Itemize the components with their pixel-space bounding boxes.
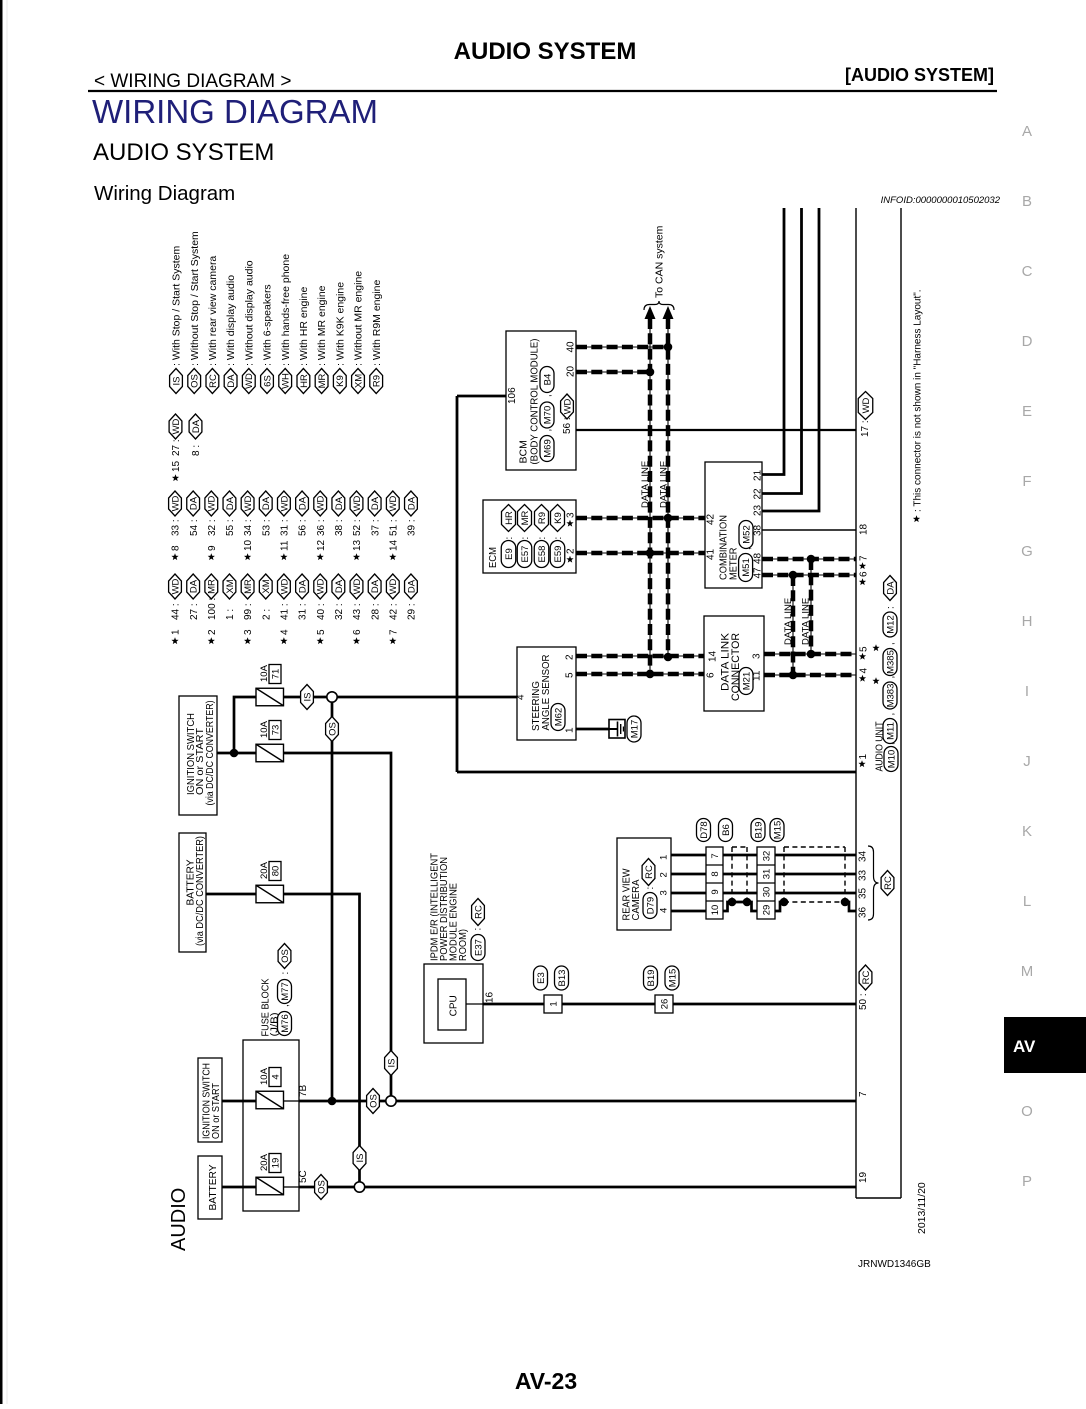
wire REAR VIEW CAMERA pin 2 row (671, 873, 706, 876)
svg-text:M11: M11 (885, 722, 896, 740)
svg-text:29 :: 29 : (407, 603, 418, 620)
option badge OS on 5C wire (315, 1175, 328, 1200)
svg-text:33: 33 (858, 869, 869, 881)
svg-text:CAMERA: CAMERA (631, 879, 642, 920)
svg-text:55 :: 55 : (225, 519, 236, 536)
AUDIO UNIT pin *5 (859, 646, 870, 660)
svg-text:8: 8 (171, 545, 182, 551)
svg-text:1: 1 (659, 855, 670, 860)
svg-text:WD: WD (243, 495, 254, 511)
legend badge HR (297, 286, 310, 393)
wire ECM pin *3 to COMBINATION METER pin 42 (576, 517, 705, 519)
ECM box (483, 500, 576, 573)
svg-text:DA: DA (261, 496, 272, 510)
note row B column 12 badge DA (368, 491, 381, 536)
svg-text:32 :: 32 : (334, 603, 345, 620)
svg-text:22: 22 (753, 488, 764, 500)
svg-text:3: 3 (659, 890, 670, 895)
legend badge RC (206, 256, 219, 394)
svg-text:OS: OS (190, 374, 201, 388)
note row B column 10 badge DA (332, 491, 345, 536)
junction dot ignition feed (230, 749, 239, 758)
svg-text:WD: WD (562, 398, 573, 414)
svg-text:1: 1 (858, 754, 869, 760)
note row C column 3 badge MR (205, 574, 218, 644)
COMBINATION METER badges M51 M52 (739, 521, 753, 582)
svg-text:4: 4 (859, 668, 870, 674)
svg-text:E57: E57 (520, 546, 531, 563)
ECM pin *3 (566, 512, 577, 527)
AUDIO UNIT pin *6 (859, 571, 870, 585)
wire connector D78 pin 7 to B19 pin 32 (723, 854, 757, 857)
svg-text:27 :: 27 : (189, 603, 200, 620)
legend badge WH (279, 254, 292, 394)
svg-text:,: , (886, 642, 897, 645)
svg-text:M52: M52 (741, 525, 752, 543)
svg-text:DA: DA (226, 374, 237, 388)
svg-text:WIRING DIAGRAM: WIRING DIAGRAM (92, 93, 378, 130)
wire DATA LINK CONNECTOR pin 3 to AUDIO UNIT pin *5 (764, 653, 856, 655)
svg-text:DA: DA (406, 496, 417, 510)
badge RC for camera pins (881, 871, 894, 896)
wire shield net to AUDIO UNIT pin 36 (843, 902, 856, 911)
svg-text:WD: WD (352, 495, 363, 511)
note row C column 5 badge MR (241, 574, 254, 644)
svg-text:WD: WD (279, 578, 290, 594)
svg-text:DATA LINE: DATA LINE (801, 598, 812, 645)
svg-text:DATA LINE: DATA LINE (783, 598, 794, 645)
ECM connector E59 badge K9 (550, 505, 565, 568)
svg-text:IS: IS (302, 693, 313, 702)
svg-text:DATA LINE: DATA LINE (640, 461, 651, 508)
svg-text:M76: M76 (280, 1014, 291, 1032)
svg-text:DA: DA (334, 579, 345, 593)
STEERING ANGLE SENSOR box (517, 647, 576, 740)
svg-text:DA: DA (406, 579, 417, 593)
fuse 80 number box (269, 862, 281, 881)
svg-text:JRNWD1346GB: JRNWD1346GB (858, 1259, 931, 1270)
wire BCM pin 56 to AUDIO UNIT pin 17 (576, 429, 856, 431)
svg-text:7: 7 (388, 629, 399, 635)
svg-text:29: 29 (762, 905, 773, 916)
svg-text:MR: MR (207, 579, 218, 594)
svg-text::: : (553, 537, 564, 540)
svg-text:23: 23 (753, 504, 764, 516)
note row B column 4 badge DA (223, 491, 236, 536)
svg-text:71: 71 (270, 669, 281, 680)
IGNITION SWITCH (via DC/DC CONVERTER) box (179, 696, 217, 815)
svg-text:6S: 6S (262, 375, 273, 387)
svg-text:A: A (1022, 123, 1032, 140)
wire fuse 19 to fuse block edge 5C (283, 1186, 299, 1188)
svg-text:19: 19 (858, 1171, 869, 1183)
BATTERY box (198, 1156, 222, 1219)
note row C column 12 badge DA (368, 574, 381, 620)
svg-text:K9: K9 (553, 512, 564, 524)
svg-text:M383: M383 (885, 684, 896, 708)
wire fuse 4 to fuse block edge 7B (283, 1100, 299, 1102)
svg-text:48: 48 (753, 552, 764, 564)
wire shield jog D78 pin 10 to B19 pin 29 (723, 902, 757, 911)
ECM connector E57 badge MR (517, 505, 532, 568)
fuse 71 number box (269, 665, 281, 684)
svg-text:14: 14 (708, 650, 719, 662)
svg-text:M385: M385 (885, 650, 896, 674)
svg-text:50 :: 50 : (858, 993, 869, 1010)
svg-text:M15: M15 (772, 821, 783, 839)
ground M17 (609, 720, 625, 739)
svg-text:1: 1 (548, 1001, 559, 1006)
fuse 73 number box (269, 721, 281, 740)
camera pins brace (868, 846, 879, 920)
svg-text:XM: XM (261, 579, 272, 593)
note row C column 2 badge DA (187, 574, 200, 620)
svg-text:ECM: ECM (488, 547, 499, 568)
svg-text:B: B (1022, 193, 1032, 210)
wire IPDM CPU pin 16 (466, 1003, 483, 1005)
svg-text:: Without display audio: : Without display audio (243, 260, 255, 366)
wire REAR VIEW CAMERA pin 3 row (671, 892, 706, 895)
AUDIO UNIT pin 50 with RC badge (858, 965, 872, 1010)
REAR VIEW CAMERA badges D79 RC (642, 859, 657, 919)
option badge IS on battery branch (353, 1146, 366, 1171)
footnote star (913, 515, 920, 522)
svg-text:RC: RC (861, 971, 872, 985)
svg-text:AUDIO SYSTEM: AUDIO SYSTEM (93, 139, 274, 166)
svg-text:42 :: 42 : (388, 603, 399, 620)
AUDIO UNIT box (856, 208, 901, 1198)
note row B column 2 badge DA (187, 491, 200, 536)
inline connector 1 E3/B13 (544, 995, 562, 1013)
svg-text:< WIRING DIAGRAM >: < WIRING DIAGRAM > (94, 71, 291, 92)
ECM pin *2 (566, 548, 577, 563)
note row B column 13 badge WD (386, 491, 399, 560)
svg-text:: Without Stop / Start System: : Without Stop / Start System (189, 231, 201, 366)
note row B column 14 badge DA (405, 491, 418, 536)
svg-text:2 :: 2 : (261, 609, 272, 620)
wire BATTERY to fuse 80 (206, 893, 256, 896)
wire BATTERY lower to fuse 19 (222, 1186, 256, 1189)
svg-text:7: 7 (858, 1091, 869, 1097)
svg-text:F: F (1022, 473, 1031, 490)
svg-text:: With HR engine: : With HR engine (298, 286, 310, 366)
svg-text:IS: IS (355, 1154, 366, 1163)
BCM connector badges M69 M70 B4 (540, 367, 554, 462)
connector badge B19 upper (751, 819, 765, 842)
svg-text:M51: M51 (741, 558, 752, 576)
svg-text:DA: DA (370, 496, 381, 510)
wire BCM pin 106 feed from node (457, 395, 506, 398)
svg-text:DA: DA (297, 579, 308, 593)
svg-text:RC: RC (473, 905, 484, 919)
svg-text:4: 4 (516, 694, 527, 700)
svg-text:MR: MR (243, 579, 254, 594)
FUSE BLOCK badges M76 M77 OS (278, 944, 292, 1036)
svg-text:7: 7 (710, 853, 721, 858)
margin index letters (1021, 123, 1034, 1190)
AUDIO UNIT pin *4 (859, 668, 870, 682)
svg-text:: With rear view camera: : With rear view camera (207, 256, 219, 366)
svg-text:13: 13 (352, 539, 363, 551)
svg-text:M70: M70 (542, 406, 553, 424)
svg-text:DA: DA (334, 496, 345, 510)
svg-text:DA: DA (189, 496, 200, 510)
star marker M383 (872, 677, 879, 684)
svg-text:1: 1 (171, 629, 182, 635)
svg-text:ANGLE SENSOR: ANGLE SENSOR (541, 655, 552, 731)
ECM connector E58 badge R9 (534, 505, 549, 568)
svg-text:43 :: 43 : (352, 603, 363, 620)
svg-text:47: 47 (753, 567, 764, 579)
svg-text:(via DC/DC CONVERTER): (via DC/DC CONVERTER) (194, 836, 206, 946)
wire shield jog B19 pin 29 to shield net (775, 902, 786, 911)
svg-text:27 :: 27 : (171, 439, 182, 456)
legend badge K9 (333, 282, 346, 394)
svg-text:10: 10 (243, 539, 254, 551)
wire fuse 71 through IS connector to option node (283, 696, 327, 699)
svg-text:40 :: 40 : (316, 603, 327, 620)
wire B19 pin 31 to AUDIO UNIT pin 33 (775, 873, 856, 876)
svg-text:L: L (1023, 893, 1031, 910)
CAN line vertical 2 to CAN system (667, 318, 669, 657)
note row C column 9 badge WD (314, 574, 327, 644)
svg-text::: : (645, 887, 656, 890)
svg-text:8: 8 (710, 871, 721, 876)
DATA LINK CONNECTOR box (704, 616, 764, 711)
svg-text:56 :: 56 : (298, 519, 309, 536)
wire COMBINATION METER pin 47 to AUDIO UNIT pin *6 (762, 574, 856, 576)
svg-text:G: G (1021, 543, 1033, 560)
svg-text:26: 26 (659, 999, 670, 1010)
svg-text:: With R9M engine: : With R9M engine (371, 279, 383, 366)
svg-text:31 :: 31 : (298, 603, 309, 620)
camera harness connector B19/M15 (757, 847, 775, 919)
svg-text:DA: DA (189, 579, 200, 593)
svg-text:: With K9K engine: : With K9K engine (334, 282, 346, 366)
BATTERY (via DC/DC CONVERTER) box (179, 833, 206, 952)
AUDIO UNIT pin 17 with WD badge (858, 392, 873, 438)
fuse 10A 71 (256, 688, 284, 706)
svg-text:36 :: 36 : (316, 519, 327, 536)
note row C column 6 badge XM (259, 574, 272, 620)
note row C column 4 badge XM (223, 574, 236, 620)
svg-text:3: 3 (752, 653, 763, 659)
AUDIO UNIT connector badges (883, 576, 898, 772)
svg-text:: With Stop / Start System: : With Stop / Start System (171, 246, 183, 366)
svg-text:3: 3 (566, 512, 577, 518)
svg-text:56 :: 56 : (562, 417, 573, 434)
svg-text:5: 5 (565, 672, 576, 678)
svg-text:(via DC/DC CONVERTER): (via DC/DC CONVERTER) (204, 701, 216, 806)
wire 7B to AUDIO UNIT pin 7 (299, 1100, 856, 1103)
svg-text:16: 16 (485, 991, 496, 1003)
note row B column 9 badge WD (314, 491, 327, 560)
wire junction up to fuse 71 (234, 697, 256, 753)
inline connector 26 B19/M15 (655, 995, 673, 1013)
svg-text:99 :: 99 : (243, 603, 254, 620)
svg-text:41 :: 41 : (280, 603, 291, 620)
header rule (88, 90, 997, 92)
svg-text:20: 20 (566, 365, 577, 377)
legend badge R9 (370, 279, 383, 393)
svg-text:OS: OS (316, 1180, 327, 1194)
legend badge MR (315, 285, 328, 393)
note row C column 13 badge WD (386, 574, 399, 644)
svg-text:K9: K9 (335, 375, 346, 387)
svg-text:WD: WD (207, 495, 218, 511)
wire OS branch from option node down to 7B junction (331, 703, 334, 1102)
wire B19 pin 32 to AUDIO UNIT pin 34 (775, 854, 856, 857)
fuse 10A 73 (256, 744, 284, 762)
fuse 10A 4 (256, 1091, 284, 1109)
svg-text:38: 38 (753, 524, 764, 536)
DATA LINK CONNECTOR badge M21 (739, 668, 753, 695)
svg-text:8 :: 8 : (191, 445, 202, 456)
wire DATA LINK CONNECTOR pin 11 to AUDIO UNIT pin *4 (764, 674, 856, 676)
svg-text:RC: RC (208, 374, 219, 388)
svg-text:41: 41 (706, 548, 717, 560)
svg-text:DA: DA (225, 496, 236, 510)
svg-text:D78: D78 (699, 821, 710, 838)
svg-text:(BODY CONTROL MODULE): (BODY CONTROL MODULE) (529, 339, 541, 465)
wire COMBINATION METER pin 48 to AUDIO UNIT pin *7 (762, 558, 856, 560)
svg-text:WD: WD (316, 495, 327, 511)
wire connector 26 to AUDIO UNIT pin 50 (673, 1003, 856, 1006)
note row C column 10 badge DA (332, 574, 345, 620)
svg-text:80: 80 (270, 866, 281, 877)
option node circle 7B (386, 1096, 396, 1106)
wire IPDM to connector E3/B13 (483, 1003, 544, 1006)
svg-text::: : (520, 537, 531, 540)
svg-text:10: 10 (710, 905, 721, 916)
svg-text:AUDIO: AUDIO (168, 1188, 190, 1251)
svg-text:E3: E3 (536, 972, 547, 984)
shield outline around camera harness 1 (732, 847, 747, 898)
svg-text:33 :: 33 : (171, 519, 182, 536)
svg-text:WD: WD (388, 578, 399, 594)
svg-text:9: 9 (207, 545, 218, 551)
svg-text:106: 106 (507, 387, 518, 404)
svg-text:HR: HR (299, 374, 310, 388)
svg-text:WD: WD (316, 578, 327, 594)
svg-text:40: 40 (566, 341, 577, 353)
svg-text:XM: XM (353, 374, 364, 388)
legend badge 6S (261, 284, 274, 393)
svg-text:,: , (543, 429, 554, 432)
svg-text:C: C (1022, 263, 1033, 280)
svg-text:: With hands-free phone: : With hands-free phone (280, 254, 292, 366)
svg-text:E37: E37 (473, 939, 484, 956)
svg-text:30: 30 (762, 887, 773, 898)
wire BCM pin 20 CAN (576, 371, 650, 373)
svg-text:,: , (280, 1004, 291, 1007)
fuse 4 number box (269, 1068, 281, 1087)
wire COMBINATION METER pin 23 going off page top (762, 208, 819, 511)
svg-text:44 :: 44 : (171, 603, 182, 620)
legend badge IS (170, 246, 183, 394)
svg-text:2: 2 (565, 654, 576, 660)
junction dot 7B OS branch (328, 1097, 337, 1106)
wire vertical BCM feed down to audio unit *1 row (456, 396, 459, 772)
legend badge DA (224, 275, 237, 394)
svg-text:RC: RC (644, 865, 655, 879)
svg-text::: : (473, 928, 484, 931)
svg-text:2013/11/20: 2013/11/20 (916, 1182, 928, 1234)
CAN arrowhead 1 (645, 306, 656, 319)
wire connector D78 pin 8 to B19 pin 31 (723, 873, 757, 876)
svg-text:[AUDIO SYSTEM]: [AUDIO SYSTEM] (845, 65, 994, 85)
svg-text:6: 6 (352, 629, 363, 635)
svg-text:: With display audio: : With display audio (225, 275, 237, 366)
svg-text:,: , (886, 676, 897, 679)
svg-text:M12: M12 (885, 615, 896, 633)
svg-text:OS: OS (327, 722, 338, 736)
svg-text:OS: OS (368, 1094, 379, 1108)
svg-text:R9: R9 (372, 375, 383, 387)
svg-text:6: 6 (706, 672, 717, 678)
ground badge M17 (627, 716, 641, 742)
svg-text:42: 42 (706, 513, 717, 525)
svg-text:WD: WD (170, 578, 181, 594)
wire STEERING ANGLE SENSOR pin 1 to ground (576, 728, 618, 731)
svg-text:3: 3 (243, 629, 254, 635)
svg-text:73: 73 (270, 725, 281, 736)
svg-text:5C: 5C (298, 1170, 309, 1183)
wire connector D78 pin 9 to B19 pin 30 (723, 892, 757, 895)
svg-text:BATTERY: BATTERY (208, 1164, 219, 1210)
connector badge B13 (555, 966, 569, 990)
shield junction dots (728, 898, 737, 907)
IGNITION SWITCH ON or START box (198, 1058, 222, 1142)
svg-text:ON or START: ON or START (211, 1083, 222, 1139)
AUDIO UNIT pin *7 (859, 555, 870, 569)
svg-text:DA: DA (370, 579, 381, 593)
svg-text:AV: AV (1013, 1037, 1036, 1056)
option badge IS on fuse 71 wire (301, 685, 314, 710)
svg-text:11: 11 (280, 540, 291, 551)
wire 5C to AUDIO UNIT pin 19 (299, 1186, 856, 1189)
wire connector 1 to connector 26 (562, 1003, 655, 1006)
legend badge WD (242, 260, 255, 393)
svg-text:5: 5 (859, 646, 870, 652)
svg-text:WD: WD (244, 373, 255, 389)
note row B column 5 badge WD (241, 491, 254, 560)
svg-text:E59: E59 (553, 546, 564, 563)
wire BCM pin 40 CAN (576, 346, 668, 348)
page edge bar (0, 0, 3, 1404)
connector badge D78 (697, 819, 711, 842)
svg-text:39 :: 39 : (407, 519, 418, 536)
svg-text:M62: M62 (553, 708, 564, 726)
wire junction to fuse 73 (234, 752, 256, 755)
svg-text:6: 6 (859, 571, 870, 577)
svg-text:P: P (1022, 1173, 1032, 1190)
svg-text:B19: B19 (646, 970, 657, 987)
svg-text:IS: IS (171, 377, 182, 386)
svg-text::: : (537, 537, 548, 540)
svg-text:WD: WD (170, 495, 181, 511)
wire to AUDIO UNIT pin *1 (457, 771, 856, 774)
connector badge B19 lower (644, 966, 658, 990)
svg-text:B13: B13 (557, 970, 568, 987)
wire ECM pin *2 to COMBINATION METER pin 41 (576, 552, 705, 554)
REAR VIEW CAMERA box (617, 838, 671, 930)
connector badge E3 (534, 966, 548, 990)
svg-text:WD: WD (352, 578, 363, 594)
connector badge M15 upper (770, 819, 784, 842)
svg-text:28 :: 28 : (370, 603, 381, 620)
wire STEERING ANGLE SENSOR pin 2 to DATA LINK CONNECTOR pin 14 (576, 655, 704, 657)
